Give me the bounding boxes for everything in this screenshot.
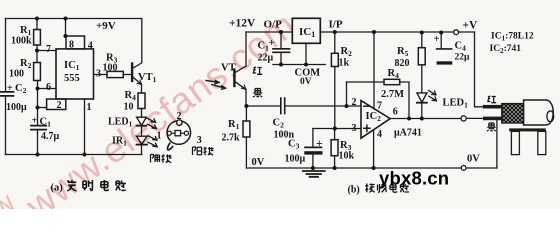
wire: IC1 COM lead	[305, 43, 307, 64]
LED LED1 emission arrows	[147, 118, 156, 122]
wire: IC1 output rail to +V corner	[320, 31, 453, 33]
wire: VT1 emitter to R4	[141, 85, 143, 94]
CJK caption 接收电路 (receiver circuit)	[365, 184, 374, 193]
svg-text:10: 10	[124, 102, 134, 113]
wire: R2 down to pin3 node	[334, 67, 336, 129]
transistor VT1 emitter stroke with arrow	[132, 77, 141, 85]
LED LED1 cathode bar	[137, 125, 147, 127]
svg-text:C2: C2	[273, 118, 285, 130]
svg-text:2: 2	[177, 111, 182, 122]
wire: R1 top lead from rail	[36, 19, 38, 30]
LED LED1 triangle (receiver)	[417, 93, 427, 102]
svg-text:O/P: O/P	[264, 19, 283, 31]
svg-text:22μ: 22μ	[455, 53, 471, 63]
wire: R3 from pin3 node	[334, 129, 336, 140]
svg-text:R1: R1	[228, 119, 240, 131]
svg-text:6: 6	[46, 82, 51, 93]
LED package outline circle (pinout view)	[167, 121, 191, 145]
svg-text:R5: R5	[397, 46, 409, 58]
wire: VT emitter node down to R1	[245, 106, 247, 121]
wire: COM 0V bus	[273, 64, 325, 66]
wire: R3 to VT1 base	[123, 74, 131, 76]
wire: pin 6 lead	[38, 88, 57, 90]
svg-text:7: 7	[377, 101, 382, 112]
wire: op-amp pin7 to +V rail	[373, 32, 375, 109]
wire: C4 from rail	[440, 33, 442, 49]
op IC1 555 main box	[56, 49, 94, 99]
CJK 红 (red) near VT	[253, 67, 263, 74]
svg-text:100: 100	[9, 69, 24, 80]
wire: R2 from rail	[334, 32, 336, 53]
wire: C3 lead down	[312, 129, 314, 148]
wire: op-amp pin4 to 0V rail	[373, 130, 375, 168]
wire: pin 3 output lead	[94, 74, 108, 76]
wire: LED1 to output wire	[421, 103, 423, 119]
wire: C3 to 0V rail	[312, 155, 314, 168]
connector tip ellipse	[547, 111, 554, 122]
terminal circle output	[461, 116, 466, 121]
svg-text:+: +	[32, 116, 38, 127]
wire: C1 from rail	[280, 32, 282, 48]
pinout inner lead circles and chip	[167, 131, 171, 135]
LED IR1 emission arrows	[148, 136, 157, 140]
svg-text:7: 7	[46, 44, 51, 55]
wire: R4 to LED1	[141, 109, 143, 118]
svg-text:0V: 0V	[300, 77, 312, 87]
wire: R5 to LED1	[421, 65, 423, 93]
plug bar below connector	[509, 128, 546, 131]
wire: R5 from rail	[421, 33, 423, 48]
plug prong right	[538, 131, 546, 154]
svg-text:1: 1	[87, 102, 92, 113]
CJK 红 (red) at connector	[487, 96, 496, 103]
wire: feedback from pin2 node up	[346, 82, 348, 106]
wire: pin 7 lead	[37, 50, 56, 52]
LED LED1 emission arrows (receiver)	[429, 90, 436, 94]
wire: LED1 to IR1	[141, 126, 143, 136]
svg-text:+: +	[316, 138, 323, 150]
wire: 0V rail after terminal to shield	[466, 167, 497, 169]
resistor R1 body	[34, 30, 41, 46]
wire: transmitter left branch lower (C2 to ground rail)	[5, 96, 7, 155]
wire: receiver VT collector lead from +12V rail	[245, 32, 247, 66]
svg-text:+: +	[7, 83, 13, 94]
svg-text:R4: R4	[125, 90, 137, 102]
op-amp plus sign pin3	[364, 125, 370, 131]
svg-text:C4: C4	[455, 41, 467, 53]
capacitor C3 100u plates	[305, 146, 321, 148]
transistor VT1 collector stroke and lead to rail	[132, 19, 142, 69]
svg-text:IC2:741: IC2:741	[490, 44, 522, 55]
svg-text:3: 3	[197, 135, 202, 146]
wire: IR1 to ground rail	[141, 145, 143, 155]
svg-text:C3: C3	[288, 139, 300, 151]
wire: transmitter +9V top rail	[6, 18, 142, 20]
svg-text:4: 4	[377, 129, 382, 140]
wire: C1 to ground rail	[37, 130, 39, 155]
svg-text:+12V: +12V	[229, 18, 256, 30]
svg-text:+: +	[434, 34, 440, 45]
LED IR1 triangle	[137, 136, 148, 144]
wire: C1 to 0V bus	[280, 53, 282, 65]
wire: R1 to R2 segment	[36, 45, 38, 63]
resistor R4 body	[384, 79, 400, 84]
svg-text:3: 3	[96, 69, 101, 80]
capacitor C2 100n plates	[281, 98, 285, 114]
wire: R3 to 0V rail	[334, 156, 336, 168]
resistor R3 body (receiver)	[331, 140, 338, 156]
wire: pin 8/4 supply lead from rail	[65, 19, 67, 37]
svg-text:100μ: 100μ	[6, 102, 27, 113]
svg-text:IC1:78L12: IC1:78L12	[491, 32, 534, 43]
svg-text:+V: +V	[463, 20, 479, 32]
wire: C2 to op-amp pin2 node	[285, 105, 361, 107]
resistor R2 body (receiver)	[331, 53, 338, 66]
svg-text:4.7μ: 4.7μ	[41, 131, 60, 142]
wire: shield down lead	[496, 119, 498, 168]
CJK 黑 (black) near VT	[253, 89, 262, 98]
wire: transmitter bottom ground rail	[6, 154, 142, 156]
svg-text:2.7M: 2.7M	[381, 89, 404, 100]
wire: pin 2 lead	[38, 107, 47, 109]
svg-text:0V: 0V	[467, 154, 480, 165]
connector shield hatched block	[502, 104, 524, 123]
svg-text:VT: VT	[221, 63, 236, 74]
ground symbol at C3	[303, 171, 325, 177]
LED LED1 cathode bar (receiver)	[417, 102, 427, 104]
watermark www.elecfans.com line 1 bottom-left	[0, 4, 304, 237]
svg-text:LED1: LED1	[443, 98, 469, 110]
connector barrel cylinder	[524, 100, 554, 125]
wire: R2 down through pin6/pin2 nodes to C1	[37, 81, 39, 126]
svg-text:(b): (b)	[348, 185, 360, 196]
black lead thick stub	[483, 117, 502, 121]
svg-text:4: 4	[88, 41, 93, 52]
svg-text:+: +	[269, 38, 275, 49]
svg-text:(a): (a)	[51, 183, 64, 194]
capacitor C1 4.7u plates	[31, 126, 46, 130]
svg-text:100: 100	[103, 63, 118, 74]
transistor VT1 base bar	[131, 64, 133, 82]
wire: output after terminal	[466, 117, 483, 119]
resistor R4 body	[138, 93, 145, 109]
resistor R2 body	[34, 63, 41, 81]
svg-text:22μ: 22μ	[258, 53, 274, 64]
wire: receiver 0V bottom rail to terminal	[246, 167, 461, 169]
op-amp minus sign pin2	[364, 105, 370, 107]
wire: R1 to 0V rail corner	[245, 137, 247, 168]
wire: pin 1 lead to ground rail	[84, 99, 86, 155]
svg-text:1k: 1k	[339, 58, 350, 69]
resistor R5 body	[418, 48, 425, 65]
svg-text:555: 555	[64, 73, 80, 84]
capacitor C4 22u plates	[437, 48, 452, 50]
CJK 阴极 (cathode)	[151, 155, 160, 163]
resistor R3 body	[107, 71, 123, 77]
CJK caption 发射电路 (transmitter circuit)	[67, 180, 76, 191]
svg-text:C1: C1	[40, 117, 52, 129]
svg-text:C2: C2	[15, 83, 27, 95]
svg-text:6: 6	[393, 107, 398, 118]
red lead thick stub	[483, 105, 502, 109]
wire: feedback to R4	[347, 81, 385, 83]
svg-text:1: 1	[157, 131, 162, 142]
svg-text:+9V: +9V	[96, 20, 116, 32]
svg-text:R4: R4	[388, 68, 400, 80]
LED LED1 triangle	[137, 117, 147, 125]
wire: VT emitter down to node	[245, 90, 247, 107]
transistor VT collector stroke	[235, 66, 246, 73]
IC1 555 pin8 top notch box	[66, 36, 85, 49]
terminal circle 0V	[461, 166, 466, 171]
svg-text:820: 820	[395, 58, 410, 69]
svg-text:2: 2	[352, 97, 357, 108]
phototransistor VT incident light arrows	[206, 80, 219, 83]
LED IR1 cathode bar	[137, 144, 148, 146]
transistor VT base bar	[233, 70, 235, 87]
wire: op-amp output to terminal	[390, 118, 461, 120]
svg-text:100μ: 100μ	[285, 154, 306, 165]
svg-text:3: 3	[352, 123, 357, 134]
plug prong left	[511, 131, 519, 154]
regulator IC1 78L12 box	[292, 18, 320, 43]
wire: +V corner down (red lead)	[475, 32, 484, 107]
svg-text:I/P: I/P	[329, 19, 343, 31]
svg-text:0V: 0V	[252, 157, 265, 168]
transistor VT emitter stroke with arrow	[235, 81, 246, 89]
wire: R4 to output drop	[400, 82, 409, 119]
pinout index tab	[167, 143, 172, 150]
IC1 555 pin2 bottom notch box	[47, 99, 66, 110]
svg-text:VT1: VT1	[138, 72, 157, 84]
svg-text:R2: R2	[341, 46, 353, 58]
svg-text:100k: 100k	[11, 36, 32, 47]
resistor R1 body (receiver)	[243, 121, 250, 137]
svg-text:2: 2	[57, 100, 62, 111]
svg-text:2.7k: 2.7k	[222, 133, 241, 144]
wire: pin3 node horizontal	[313, 128, 361, 130]
wire: emitter node to C2	[246, 105, 280, 107]
wire: receiver +12V rail to IC1	[246, 31, 292, 33]
svg-text:8: 8	[69, 40, 74, 51]
wire: rail after terminal to corner	[459, 31, 475, 33]
CJK 阳极 (anode)	[193, 147, 202, 155]
svg-text:μA741: μA741	[394, 128, 422, 139]
svg-text:ww: ww	[0, 186, 21, 209]
CJK 黑 (black) at connector	[487, 123, 496, 131]
capacitor C2 100u plates	[0, 92, 14, 96]
wire: transmitter left branch upper (to C2)	[5, 19, 7, 92]
svg-text:IC1: IC1	[64, 60, 80, 72]
pinout pin2 small terminal circle	[177, 120, 183, 126]
capacitor C1 22u plates (receiver)	[273, 49, 290, 53]
terminal circle on +V rail	[454, 30, 459, 35]
op-amp IC2 triangle	[361, 101, 390, 139]
svg-text:10k: 10k	[339, 151, 355, 162]
